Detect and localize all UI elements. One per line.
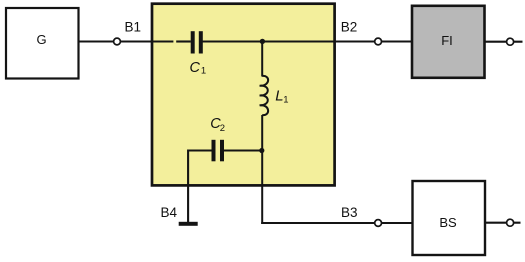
block FI <box>412 6 485 78</box>
svg-text:1: 1 <box>283 95 288 106</box>
block G <box>6 8 79 79</box>
inductor L1 <box>260 76 269 115</box>
svg-text:1: 1 <box>201 66 206 77</box>
wire FI to output <box>485 41 523 43</box>
svg-text:B2: B2 <box>341 20 358 35</box>
svg-text:C: C <box>190 60 201 76</box>
svg-text:L: L <box>275 87 283 104</box>
node junction C2 <box>259 148 264 153</box>
wire L1 vertical (junction to C2 node to bottom elbow) <box>261 42 263 77</box>
label L1 <box>275 87 288 105</box>
wire C2 left branch <box>188 151 212 223</box>
svg-text:B4: B4 <box>161 205 178 220</box>
label C1 <box>190 60 207 77</box>
terminal B3 <box>375 220 382 227</box>
tuned-circuit block (yellow region) <box>152 4 335 186</box>
svg-text:BS: BS <box>439 215 457 230</box>
svg-text:FI: FI <box>441 33 453 48</box>
wire C1 to FI <box>203 40 413 42</box>
svg-text:B1: B1 <box>125 20 142 35</box>
capacitor C1 <box>191 31 203 53</box>
wire bottom bus to BS <box>261 222 412 224</box>
wire C2 right to node <box>224 149 262 151</box>
ground <box>179 222 198 226</box>
svg-text:G: G <box>36 32 46 47</box>
svg-text:B3: B3 <box>341 205 358 220</box>
terminal output top <box>507 38 514 45</box>
label C2 <box>210 116 225 134</box>
svg-text:2: 2 <box>220 123 225 134</box>
wire BS to output <box>485 222 521 224</box>
terminal B2 <box>375 38 382 45</box>
capacitor C2 <box>212 140 225 162</box>
block BS <box>413 181 486 255</box>
node junction top <box>260 39 265 44</box>
terminal output bottom <box>507 219 514 226</box>
wire G to C1 <box>79 40 191 42</box>
terminal B1 <box>114 38 121 45</box>
